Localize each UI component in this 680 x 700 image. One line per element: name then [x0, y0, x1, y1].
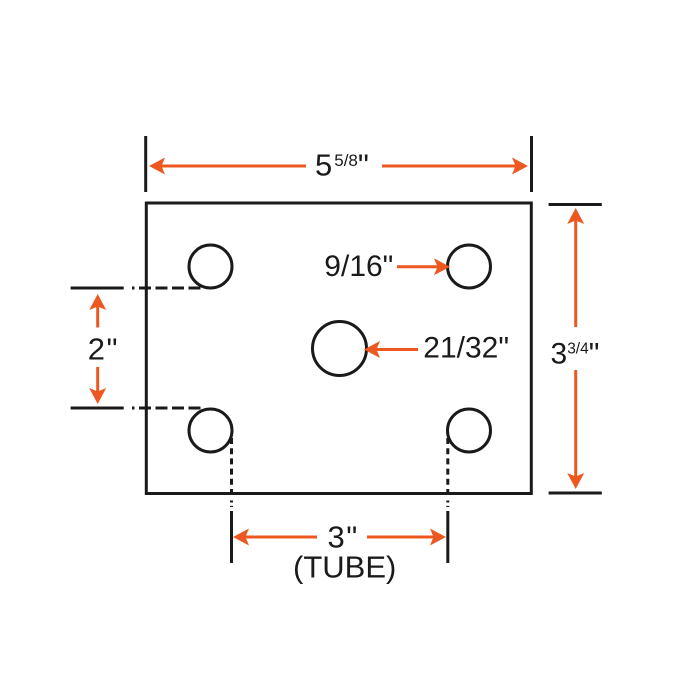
extension line bottom-left: [230, 511, 233, 563]
tick left-top: [71, 287, 124, 290]
dimension line 5-5/8 left segment: [161, 165, 306, 168]
extension line bottom-right: [446, 511, 449, 563]
svg-text:9/16": 9/16": [324, 250, 393, 283]
tick left-bottom: [71, 407, 124, 410]
extension line top-left: [144, 136, 147, 192]
svg-text:21/32": 21/32": [423, 331, 509, 364]
leader dash-dot bottom-left vertical: [230, 438, 233, 507]
dimension line 2in top segment: [96, 306, 99, 328]
plate outline: [146, 203, 531, 494]
dimension line 3-3/4 top segment: [574, 220, 577, 327]
svg-text:(TUBE): (TUBE): [293, 550, 396, 585]
leader dash-dot bottom-right vertical: [446, 438, 449, 507]
leader dash-dot top-left: [132, 287, 202, 290]
dimension line 2in bottom segment: [96, 367, 99, 392]
svg-text:33/4": 33/4": [551, 338, 600, 371]
tick right-bottom: [549, 492, 602, 495]
hole bottom-left: [189, 409, 232, 452]
arrow 9/16: [397, 265, 438, 268]
dimension line 5-5/8 right segment: [382, 165, 516, 168]
hole bottom-right: [448, 409, 491, 452]
dimension line 3in left segment: [245, 536, 317, 539]
hole center: [313, 322, 367, 376]
tick right-top: [549, 203, 602, 206]
dimension line 3-3/4 bottom segment: [574, 370, 577, 477]
arrow 21/32: [376, 348, 418, 351]
hole top-left: [189, 245, 232, 288]
svg-text:2": 2": [88, 332, 118, 367]
extension line top-right: [530, 136, 533, 192]
dimension line 3in right segment: [367, 536, 434, 539]
svg-text:55/8": 55/8": [315, 148, 369, 183]
hole top-right: [448, 245, 491, 288]
leader dash-dot bottom-left: [132, 407, 202, 410]
